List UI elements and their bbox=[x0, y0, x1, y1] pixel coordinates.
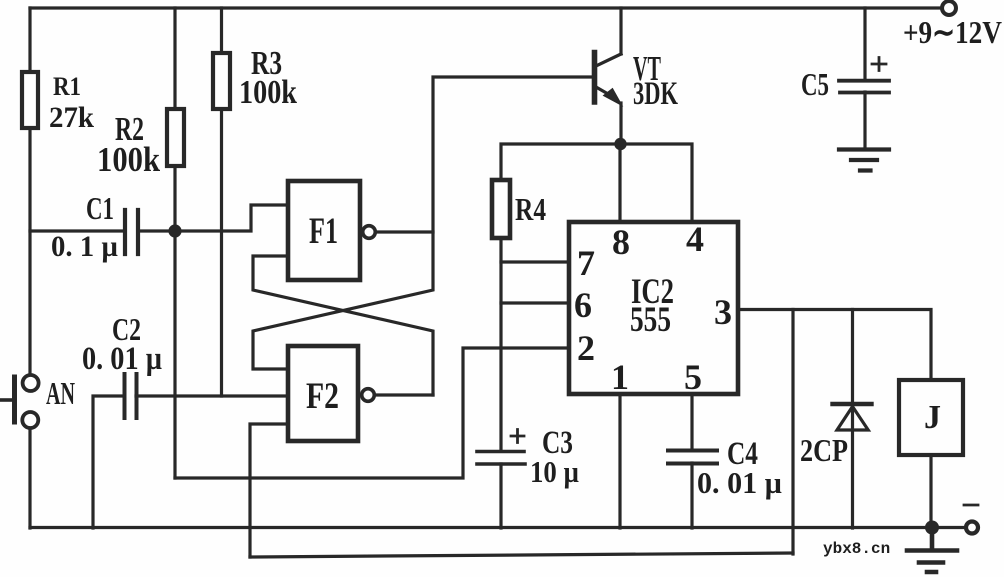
label VT type bbox=[633, 49, 678, 112]
wire second bottom feedback line bbox=[250, 553, 793, 557]
wire F1 lower input cross-couple to F2 output bbox=[253, 256, 433, 395]
junction dot R2-C1 bbox=[168, 224, 181, 237]
wire node to pin 8 bbox=[618, 144, 621, 221]
wire F1 output cross-couple to F2 upper input bbox=[253, 232, 433, 369]
svg-text:R4: R4 bbox=[515, 191, 546, 227]
IC U1 555 bbox=[569, 222, 738, 394]
resistor R4 bbox=[492, 180, 510, 238]
svg-text:C1: C1 bbox=[86, 190, 114, 226]
label R2 value bbox=[97, 111, 160, 179]
wire bottom rail bbox=[30, 526, 966, 529]
label C1 value bbox=[51, 190, 118, 263]
svg-text:F2: F2 bbox=[306, 376, 339, 417]
diode 2CP bbox=[833, 404, 872, 430]
inverter bubble F2 output bbox=[362, 389, 375, 402]
wire C1 left lead bbox=[30, 229, 123, 232]
svg-text:3: 3 bbox=[714, 292, 732, 332]
capacitor C5 lead from rail bbox=[863, 8, 866, 79]
wire left rail lower bbox=[28, 428, 31, 528]
label minus mark bbox=[964, 504, 978, 507]
terminal positive supply bbox=[942, 1, 956, 15]
relay J bbox=[899, 380, 963, 455]
gate F1 bbox=[288, 181, 360, 280]
junction dot emitter node bbox=[614, 138, 626, 150]
junction dot bottom node bbox=[925, 521, 939, 535]
ground bottom right bbox=[907, 528, 957, 572]
svg-text:0. 01 µ: 0. 01 µ bbox=[82, 341, 162, 377]
svg-text:0. 01 µ: 0. 01 µ bbox=[697, 465, 782, 500]
wire C1 right lead to F1 input bbox=[138, 205, 288, 231]
wire C5 to ground bbox=[863, 92, 866, 148]
svg-text:3DK: 3DK bbox=[633, 76, 678, 112]
wire VT collector bbox=[619, 8, 622, 54]
capacitor C4 bbox=[668, 451, 717, 464]
wire pin 2 to R2 bbox=[175, 348, 569, 478]
resistor R2 bbox=[167, 109, 184, 166]
wire pin 3 output bbox=[738, 310, 931, 381]
resistor R3 bbox=[213, 53, 230, 109]
capacitor C2 bbox=[125, 374, 137, 418]
wire pin 6 bbox=[501, 301, 569, 304]
svg-text:6: 6 bbox=[574, 285, 592, 325]
wire J bottom bbox=[929, 455, 932, 528]
wire node to pin 4 bbox=[620, 144, 692, 221]
wire pin 5 to C4 bbox=[690, 394, 693, 450]
wire C2 left lead down to bottom rail bbox=[93, 396, 123, 528]
wire pin 7 bbox=[501, 260, 569, 263]
wire C4 bottom to rail bbox=[690, 463, 693, 528]
inverter bubble F1 output bbox=[363, 226, 376, 239]
wire diode branch bbox=[851, 310, 854, 529]
capacitor C1 bbox=[125, 210, 138, 254]
label R1 value bbox=[49, 72, 94, 134]
svg-text:5: 5 bbox=[684, 357, 702, 397]
wire VT emitter to node bbox=[619, 103, 622, 144]
svg-text:C5: C5 bbox=[801, 66, 829, 102]
label R3 value bbox=[239, 45, 297, 111]
svg-text:ybx8.cn: ybx8.cn bbox=[823, 540, 890, 558]
wire R4 bottom to C3 bbox=[499, 238, 502, 450]
svg-text:1: 1 bbox=[611, 357, 629, 397]
wire F2 output lead bbox=[375, 393, 433, 396]
svg-text:27k: 27k bbox=[49, 101, 94, 134]
terminal negative output bbox=[966, 522, 978, 534]
wire R3 branch vertical bbox=[220, 8, 223, 396]
transistor VT bbox=[595, 53, 623, 106]
wire pin3 feedback drop bbox=[791, 310, 794, 555]
wire top supply rail bbox=[30, 6, 942, 9]
label C4 value bbox=[697, 436, 782, 500]
svg-text:J: J bbox=[924, 399, 941, 436]
label C5 plus bbox=[872, 58, 886, 71]
svg-text:555: 555 bbox=[630, 299, 671, 339]
svg-text:AN: AN bbox=[46, 375, 75, 411]
svg-text:8: 8 bbox=[612, 222, 630, 262]
wire C2 right lead to F2 bbox=[136, 394, 288, 397]
capacitor C3 bbox=[477, 452, 525, 465]
wire F2 lower input to feedback line bbox=[250, 424, 288, 557]
svg-text:100k: 100k bbox=[97, 140, 160, 179]
wire pin 1 to bottom rail bbox=[618, 394, 621, 528]
svg-text:4: 4 bbox=[686, 219, 704, 259]
svg-text:100k: 100k bbox=[239, 74, 297, 111]
svg-text:7: 7 bbox=[577, 243, 595, 283]
wire R2 branch vertical bbox=[173, 8, 176, 478]
resistor R1 bbox=[22, 72, 38, 128]
label C2 value bbox=[82, 311, 162, 377]
svg-text:+9∼12V: +9∼12V bbox=[903, 14, 1002, 50]
svg-text:F1: F1 bbox=[309, 211, 338, 252]
svg-text:0. 1 µ: 0. 1 µ bbox=[51, 230, 118, 263]
capacitor C5 bbox=[839, 81, 889, 93]
svg-text:2CP: 2CP bbox=[800, 432, 848, 468]
svg-text:R1: R1 bbox=[53, 72, 81, 101]
label C3 value bbox=[530, 425, 579, 489]
label C3 plus bbox=[511, 430, 524, 443]
wire C3 bottom to rail bbox=[499, 464, 502, 528]
wire node to R4 top bbox=[501, 144, 620, 180]
label IC2 555 bbox=[630, 271, 674, 339]
gate F2 bbox=[288, 346, 358, 441]
svg-text:2: 2 bbox=[577, 328, 595, 368]
pushbutton AN bbox=[1, 375, 39, 428]
svg-text:10 µ: 10 µ bbox=[530, 454, 579, 489]
wire F1 output to VT base riser bbox=[376, 77, 592, 232]
ground under C5 bbox=[839, 150, 889, 171]
wire left rail upper bbox=[28, 8, 31, 374]
